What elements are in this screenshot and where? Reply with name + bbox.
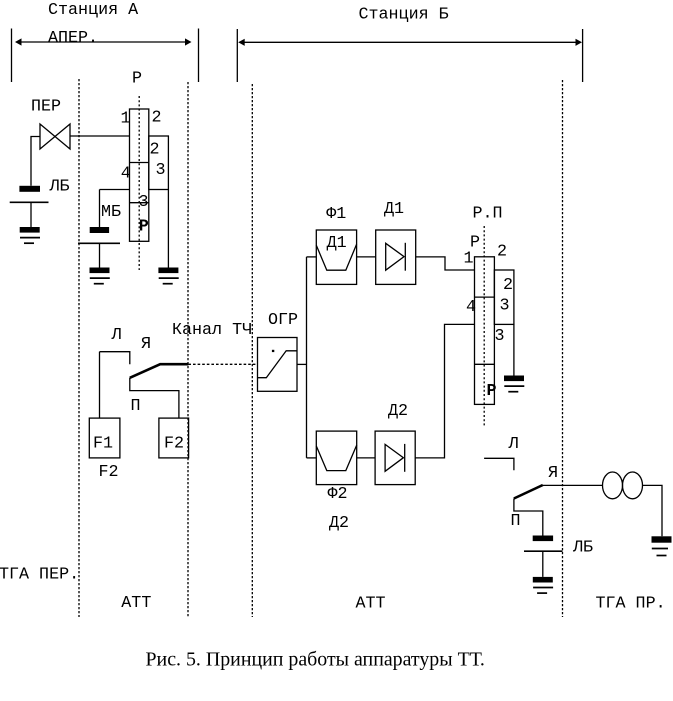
svg-text:F2: F2 xyxy=(164,434,184,453)
switch B contact L xyxy=(484,458,514,470)
wire L contact down to F1 xyxy=(99,352,101,418)
wire OGR output to trunk xyxy=(297,363,307,365)
dashed channel TCh line xyxy=(188,363,257,365)
svg-text:Канал ТЧ: Канал ТЧ xyxy=(172,321,252,340)
switch B pivot wire to LB battery xyxy=(514,499,543,536)
relay RP divider 2 xyxy=(475,363,495,365)
wire RP contact box to ground xyxy=(513,324,515,375)
relay R divider 1 xyxy=(130,162,149,164)
relay RP contact box right xyxy=(494,270,514,324)
svg-text:3: 3 xyxy=(139,193,149,212)
svg-text:Р: Р xyxy=(132,70,142,89)
svg-text:ТГА ПЕР.: ТГА ПЕР. xyxy=(0,566,79,585)
wire battery LB to key xyxy=(31,137,40,186)
wire relay contact box to ground xyxy=(167,190,169,268)
relay R divider 2 xyxy=(130,202,149,204)
battery LB plates xyxy=(10,186,49,203)
svg-text:1: 1 xyxy=(464,250,474,269)
svg-text:АТТ: АТТ xyxy=(121,594,151,613)
wire D2 to relay RP contact 4 xyxy=(415,324,474,458)
dotted station boundary line 3 xyxy=(251,84,253,617)
station B dimension bracket right xyxy=(582,29,584,82)
svg-text:Р.П: Р.П xyxy=(473,205,503,224)
svg-text:ЛБ: ЛБ xyxy=(572,539,593,558)
switch A contact L xyxy=(100,352,130,365)
ground under LB station B xyxy=(533,577,553,593)
filter F2 box xyxy=(316,431,356,485)
svg-text:Рис. 5. Принцип работы аппарат: Рис. 5. Принцип работы аппаратуры ТТ. xyxy=(146,649,485,671)
filter F1 trapezoid xyxy=(316,244,356,270)
svg-text:АТТ: АТТ xyxy=(356,595,386,614)
relay R dotted centerline xyxy=(138,96,140,270)
wire armature to transformer xyxy=(543,484,603,486)
svg-text:Д2: Д2 xyxy=(329,514,349,533)
svg-text:4: 4 xyxy=(121,164,131,183)
switch A pivot wire to F2 xyxy=(130,378,179,418)
arrow station B span xyxy=(238,39,582,46)
svg-text:П: П xyxy=(131,397,141,416)
wire trunk to F2 filter xyxy=(307,457,317,459)
limiter OGR curve xyxy=(258,351,298,378)
wire LB to ground xyxy=(30,202,32,227)
station A dimension bracket right xyxy=(198,29,200,83)
svg-text:Р: Р xyxy=(487,382,497,401)
station B dimension bracket left xyxy=(236,29,238,82)
transformer winding right xyxy=(623,472,643,499)
svg-text:Станция Б: Станция Б xyxy=(359,5,449,24)
ground under RP contact box xyxy=(504,376,524,392)
wire F2 to D2 xyxy=(357,457,375,459)
detector D2 diode xyxy=(385,444,405,472)
trunk vertical wire xyxy=(306,257,308,458)
wire trunk to F1 filter xyxy=(307,256,317,258)
wire down to MB battery xyxy=(99,190,101,228)
svg-text:ОГР: ОГР xyxy=(268,311,298,330)
ground under transformer xyxy=(652,536,672,555)
transformer winding left xyxy=(603,472,623,499)
svg-text:МБ: МБ xyxy=(101,203,121,222)
svg-text:Я: Я xyxy=(141,335,151,354)
filter F2 trapezoid xyxy=(316,445,356,471)
svg-text:ЛБ: ЛБ xyxy=(49,178,70,197)
svg-text:Д2: Д2 xyxy=(388,402,408,421)
station A dimension bracket left xyxy=(11,29,13,83)
svg-text:ПЕР: ПЕР xyxy=(31,98,61,117)
wire F1 to D1 xyxy=(357,256,376,258)
ground under relay contact box xyxy=(158,268,178,284)
relay RP dotted centerline xyxy=(483,226,485,426)
relay RP divider 1 xyxy=(475,296,495,298)
detector D1 diode xyxy=(386,243,406,271)
dotted station boundary line 1 xyxy=(78,79,80,617)
svg-text:Л: Л xyxy=(508,435,519,454)
svg-text:4: 4 xyxy=(466,298,476,317)
svg-text:2: 2 xyxy=(503,276,513,295)
dotted station boundary line 2 xyxy=(187,82,189,617)
svg-text:2: 2 xyxy=(497,243,507,262)
switch B armature (to YA) xyxy=(514,485,543,499)
relay R contact box right xyxy=(149,136,169,190)
switch A armature (to YA) xyxy=(130,364,189,378)
wire MB to ground xyxy=(99,243,101,267)
box F2 xyxy=(159,418,189,458)
wire key to relay R contact 1 xyxy=(70,135,130,137)
limiter OGR box xyxy=(258,338,298,392)
svg-text:Я: Я xyxy=(548,464,558,483)
filter F1 box xyxy=(316,230,356,284)
wire transformer to ground xyxy=(643,485,663,536)
svg-text:2: 2 xyxy=(152,109,162,128)
box F1 xyxy=(89,418,120,458)
battery LB station B plates xyxy=(524,536,563,552)
key PER (bowtie symbol) xyxy=(40,124,70,149)
ground under MB xyxy=(90,268,110,284)
relay RP body xyxy=(475,257,495,405)
wire D1 to relay RP contact 1 xyxy=(416,257,475,270)
svg-text:2: 2 xyxy=(150,141,160,160)
wire MB to relay contact 4 xyxy=(100,189,130,191)
svg-text:3: 3 xyxy=(500,297,510,316)
svg-text:П: П xyxy=(511,512,521,531)
detector D1 box xyxy=(376,230,416,284)
svg-text:ТГА ПР.: ТГА ПР. xyxy=(596,595,666,614)
svg-text:3: 3 xyxy=(495,327,505,346)
svg-text:F1: F1 xyxy=(93,434,113,453)
dotted station boundary line 4 xyxy=(562,80,564,617)
limiter OGR dot xyxy=(272,350,274,352)
svg-text:3: 3 xyxy=(156,161,166,180)
svg-text:АПЕР.: АПЕР. xyxy=(48,29,98,48)
svg-text:Р: Р xyxy=(139,218,149,237)
svg-text:F2: F2 xyxy=(99,463,119,482)
svg-text:Д1: Д1 xyxy=(384,200,404,219)
battery MB plates xyxy=(78,227,120,243)
svg-text:Станция А: Станция А xyxy=(48,1,138,20)
detector D2 box xyxy=(375,431,415,485)
svg-text:Ф1: Ф1 xyxy=(326,205,346,224)
arrow APER span xyxy=(15,38,192,45)
svg-text:Д1: Д1 xyxy=(327,234,347,253)
svg-text:1: 1 xyxy=(121,110,131,129)
relay R body xyxy=(130,109,149,241)
wire LB B to ground xyxy=(542,551,544,577)
svg-text:Л: Л xyxy=(111,326,122,345)
ground under LB xyxy=(20,227,40,243)
svg-text:Ф2: Ф2 xyxy=(328,485,348,504)
